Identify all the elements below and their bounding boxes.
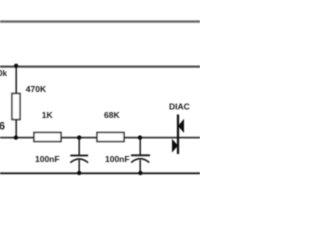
svg-text:DIAC: DIAC <box>169 102 190 112</box>
svg-text:0k: 0k <box>0 69 7 78</box>
svg-text:100nF: 100nF <box>35 154 60 164</box>
svg-text:6: 6 <box>0 121 5 133</box>
svg-text:1K: 1K <box>42 110 54 120</box>
svg-text:68K: 68K <box>104 110 120 120</box>
svg-text:100nF: 100nF <box>105 154 130 164</box>
svg-text:470K: 470K <box>26 84 47 94</box>
